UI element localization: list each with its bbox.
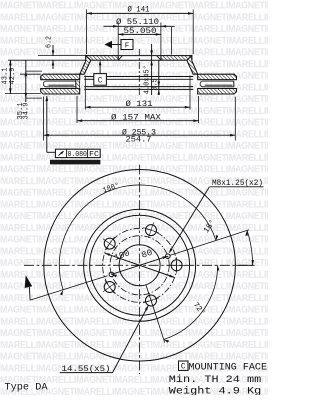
18deg dimension arc	[247, 230, 253, 265]
M8 hole right	[166, 254, 171, 259]
band inner circle	[84, 209, 196, 321]
bore circle	[119, 245, 160, 286]
left band bottom plate (hatched)	[41, 89, 80, 95]
hat circle	[90, 215, 190, 315]
bolt hole 3	[104, 238, 115, 249]
datum F leader	[112, 44, 121, 46]
svg-text:3.5: 3.5	[152, 79, 160, 91]
extension lines D255	[43, 97, 45, 141]
band top extension line	[20, 73, 41, 75]
front view centerline vertical	[139, 165, 141, 375]
dimension 43.1/42.9	[9, 60, 11, 93]
right band bottom plate (hatched)	[198, 89, 237, 95]
right vent mid vane line	[205, 84, 233, 86]
left vent slot	[43, 81, 75, 87]
72deg dimension arc	[164, 265, 218, 339]
hat left wall (hatched)	[80, 56, 91, 75]
left vent mid vane line	[49, 84, 75, 86]
svg-text:254.7: 254.7	[126, 135, 152, 144]
dimension line D55.050	[118, 33, 161, 35]
datum C box	[94, 74, 107, 86]
bolt hole 2	[146, 225, 157, 236]
bolt hole 4	[104, 282, 115, 293]
bolt hole leader	[60, 372, 113, 374]
svg-text:0.080: 0.080	[67, 151, 87, 159]
dimension 6.2	[52, 45, 54, 56]
svg-text:Weight 4.9 Kg: Weight 4.9 Kg	[169, 386, 261, 395]
hat top extension line A	[38, 55, 86, 57]
svg-text:C: C	[98, 78, 103, 86]
bolt circle (dashed)	[103, 228, 177, 302]
redacted bar	[50, 160, 100, 165]
M8 hole left	[109, 272, 114, 277]
svg-text:Ø 141: Ø 141	[128, 5, 150, 15]
M8 pitch circle (dashed)	[110, 236, 169, 295]
dimension line 80	[111, 256, 167, 274]
svg-text:42.9: 42.9	[9, 68, 17, 85]
svg-text:Ø 157 MAX: Ø 157 MAX	[111, 112, 161, 122]
datum F box	[121, 40, 133, 50]
svg-text:34.9: 34.9	[23, 103, 31, 120]
180deg dimension arc	[59, 185, 216, 290]
svg-text:6.2: 6.2	[46, 36, 54, 48]
dimension 4.0x45	[151, 44, 153, 95]
dimension line D157	[77, 120, 199, 122]
hat section right (hatched)	[161, 56, 192, 61]
svg-text:Ø 131: Ø 131	[126, 99, 153, 109]
dimension line 100	[105, 253, 175, 277]
svg-text:Type DA: Type DA	[5, 382, 49, 393]
far-side edge lines lower	[84, 86, 193, 88]
svg-text:FC: FC	[89, 151, 100, 159]
bore chamfer right	[157, 56, 161, 61]
198deg radial extension	[30, 276, 107, 300]
18deg arc extension line	[236, 264, 254, 266]
dimension 3.5	[158, 60, 160, 95]
bore chamfer left	[118, 56, 122, 61]
front view centerline horizontal	[24, 264, 255, 266]
outer circle	[44, 169, 236, 361]
svg-text:14.55(x5): 14.55(x5)	[62, 364, 111, 374]
svg-text:55.050: 55.050	[124, 26, 157, 36]
hat right wall (hatched)	[187, 56, 198, 75]
band bottom extension line	[5, 93, 41, 95]
section centerline	[138, 49, 140, 97]
rotation direction arrow	[25, 275, 33, 288]
left band vane (hatched)	[76, 80, 80, 89]
far-side edge lines upper	[84, 76, 94, 78]
dimension line D131	[85, 106, 190, 108]
dimension line D55.110	[104, 25, 175, 27]
dimension 35.1/34.9 extension lines	[26, 70, 42, 72]
left band top plate (hatched)	[41, 74, 80, 80]
svg-text:Min. TH 24 mm: Min. TH 24 mm	[169, 374, 261, 386]
datum C leader	[99, 62, 101, 74]
bolt hole 1	[171, 260, 182, 271]
bolt hole 5	[146, 295, 157, 306]
18deg radial extension	[170, 230, 249, 256]
datum C box note	[179, 361, 189, 370]
extension lines D157	[76, 96, 78, 123]
M8 leader	[170, 187, 210, 253]
72deg radial	[146, 285, 165, 343]
runout frame	[55, 149, 100, 157]
hat section left (hatched)	[86, 56, 118, 61]
right band top plate (hatched)	[198, 74, 237, 80]
mystery extension line	[171, 27, 173, 55]
svg-text:F: F	[125, 42, 130, 50]
right vent slot	[200, 81, 234, 87]
hat bore far-side edges	[118, 55, 161, 57]
dimension 35.1/34.9	[25, 60, 27, 102]
mounting face extension line B	[8, 59, 86, 61]
bore extension lines	[117, 23, 119, 61]
extension lines D131	[84, 76, 86, 110]
svg-text:C: C	[181, 364, 186, 372]
svg-text:MOUNTING FACE: MOUNTING FACE	[189, 362, 268, 373]
dimension line D141	[87, 12, 194, 14]
svg-text:4.0x45°: 4.0x45°	[143, 65, 152, 94]
dimension line D255	[44, 134, 236, 136]
runout leader	[46, 96, 49, 101]
